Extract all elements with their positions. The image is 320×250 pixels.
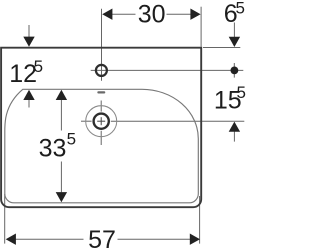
svg-text:30: 30	[138, 1, 166, 29]
svg-text:5: 5	[67, 130, 76, 149]
svg-text:33: 33	[39, 135, 67, 163]
svg-text:5: 5	[236, 83, 245, 102]
svg-text:5: 5	[34, 57, 43, 76]
svg-text:57: 57	[88, 226, 116, 250]
svg-text:5: 5	[235, 0, 244, 18]
